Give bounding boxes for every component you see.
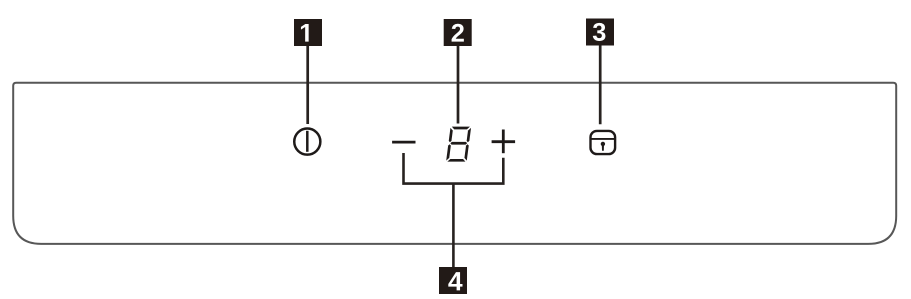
keyhole xyxy=(601,142,605,146)
leader line 3 xyxy=(599,46,602,125)
callout label 3 xyxy=(586,19,614,46)
segment A top xyxy=(451,127,469,130)
callout label 2 xyxy=(444,19,472,46)
segment G middle xyxy=(450,142,467,145)
power button icon xyxy=(294,129,320,155)
leader line 4 xyxy=(452,184,455,267)
segment E lower-left xyxy=(446,144,451,160)
leader line 2 xyxy=(457,46,460,124)
minus button xyxy=(392,141,415,144)
panel outline xyxy=(13,83,896,244)
bracket grouping minus and plus for label 4 xyxy=(404,153,504,184)
leader line 1 xyxy=(306,46,309,124)
7-segment display digit 8 xyxy=(446,127,471,162)
segment C lower-right xyxy=(464,144,469,160)
segment F upper-left xyxy=(449,128,454,142)
callout label 1 xyxy=(294,19,322,46)
callout label 4 xyxy=(439,267,467,294)
segment B upper-right xyxy=(466,128,471,142)
plus button xyxy=(492,130,515,154)
lock icon xyxy=(590,131,616,154)
segment D bottom xyxy=(447,159,465,162)
